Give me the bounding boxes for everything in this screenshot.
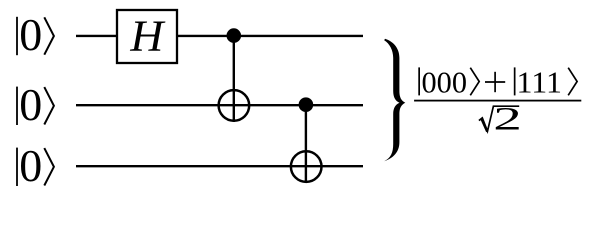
CNOT2 control dot <box>299 97 314 112</box>
CNOT1 vertical wire <box>233 36 235 122</box>
gate H box <box>117 10 177 63</box>
numerator ket bar |1 <box>418 67 420 95</box>
wire q0 <box>76 35 363 37</box>
sqrt radical <box>479 106 519 131</box>
CNOT1 control dot <box>227 28 242 43</box>
svg-text:0: 0 <box>19 79 42 130</box>
svg-text:000: 000 <box>422 65 468 100</box>
numerator ket bar |2 <box>514 67 516 95</box>
svg-text:0: 0 <box>19 9 42 60</box>
qubit label q2 ket |0> <box>16 140 54 191</box>
wire q1 <box>76 104 363 106</box>
CNOT2 target circle <box>291 151 322 182</box>
svg-text:H: H <box>129 12 165 61</box>
right brace <box>384 39 405 161</box>
qubit label q0 ket |0> <box>16 9 54 60</box>
svg-text:2: 2 <box>493 102 522 138</box>
fraction bar <box>414 100 581 102</box>
CNOT1 target circle <box>219 90 250 121</box>
svg-text:111: 111 <box>517 65 563 100</box>
numerator rangle 2 <box>568 68 577 96</box>
numerator rangle 1 <box>470 68 479 96</box>
plus sign <box>485 72 505 92</box>
qubit label q1 ket |0> <box>16 79 54 130</box>
CNOT2 vertical wire <box>305 105 307 183</box>
wire q2 <box>76 165 363 167</box>
svg-text:0: 0 <box>19 140 42 191</box>
